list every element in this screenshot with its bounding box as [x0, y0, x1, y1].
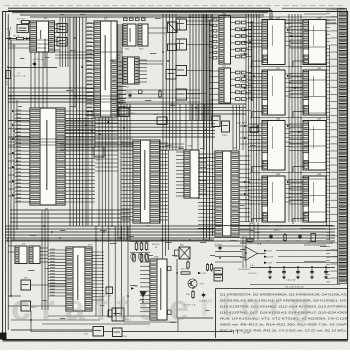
wire right of D2 going down: [94, 117, 96, 147]
svg-text:KD503A: KD503A: [8, 45, 16, 48]
gate D5.4 box: [157, 117, 167, 125]
gate D4.2: [21, 301, 31, 311]
D3 right stubs: [40, 247, 48, 249]
long vertical wire x206: [203, 14, 205, 240]
box DN2000: [214, 268, 223, 274]
svg-text:c r a f t s e: c r a f t s e: [11, 287, 189, 328]
capacitor C4: [202, 294, 205, 296]
oscillator box G1: [17, 25, 29, 33]
resistor R5 vertical: [159, 91, 161, 97]
svg-text:R32 C*: R32 C*: [274, 230, 281, 232]
wire x252 LED column: [251, 22, 253, 100]
flip-flop D16.2: [222, 121, 230, 132]
capacitor C8: [298, 235, 301, 237]
svg-text:R37 1k: R37 1k: [181, 269, 187, 271]
svg-text:47k: 47k: [6, 84, 9, 86]
svg-text:C17–C19: C17–C19: [248, 273, 257, 275]
D10 right resistor pairs (R14-R21): [231, 22, 236, 24]
flip-flop D16.1: [212, 116, 220, 127]
D10 left resistor stubs: [213, 19, 217, 21]
RAM mid bus: [288, 14, 290, 222]
gate D6.2 box: [94, 147, 104, 157]
vertical bus x190-211: [189, 14, 191, 120]
top right link: [264, 16, 337, 18]
svg-text:D4.3: D4.3: [123, 336, 127, 338]
power section separator wire: [215, 225, 333, 227]
svg-text:U3 K153UD2: U3 K153UD2: [238, 269, 251, 271]
D11 right resistor pairs: [231, 72, 236, 74]
horizontal link wires upper-left: [30, 16, 264, 18]
svg-text:C9: C9: [308, 242, 310, 244]
svg-text:1k: 1k: [155, 247, 157, 249]
svg-text:D8.1: D8.1: [125, 49, 129, 51]
vertical bus bundle left of CPU: [69, 17, 71, 226]
svg-text:PV VEТ: PV VEТ: [243, 333, 251, 335]
svg-text:4,7 mk × 6 B: 4,7 mk × 6 B: [14, 75, 26, 78]
wires into CPU bottom: [8, 91, 94, 93]
wires D8-D9 to bus: [139, 60, 163, 62]
+5V arrow mid-bottom: [131, 287, 134, 289]
top supply bus wires: [8, 7, 270, 9]
resistor row above D8: [124, 18, 128, 21]
svg-text:C7: C7: [267, 241, 269, 243]
gate D6.1 box: [119, 108, 129, 117]
D11 left stubs: [209, 70, 219, 72]
extra pin stubs D9 right: [139, 59, 147, 61]
RAM right-side stubs col1: [285, 23, 291, 25]
resistor R36: [187, 262, 189, 268]
D17 left stubs: [48, 249, 66, 251]
BR analog wires: [215, 245, 242, 247]
data bus horizontal bundle: [118, 103, 246, 105]
D2 left pin stubs with labels: [15, 110, 30, 112]
wire y66 row: [8, 67, 57, 69]
BL bottom wires: [11, 319, 100, 321]
D17 right stubs: [92, 251, 104, 253]
resistor R43: [284, 235, 286, 241]
svg-text:+5 B: +5 B: [202, 273, 207, 275]
D15 left stubs: [140, 261, 150, 263]
wires below RAM rows: [250, 66, 330, 68]
IC D9 below D8: [123, 57, 139, 84]
wire staircase top-left to D2: [8, 95, 120, 97]
capacitor C7: [269, 235, 272, 237]
+5V arrow analog: [198, 272, 201, 274]
horizontal wires from D2 to middle chips: [10, 209, 130, 211]
capacitor C9: [311, 234, 316, 242]
RAM row link verticals: [249, 222, 251, 240]
vertical wires left of D17: [41, 210, 43, 310]
svg-text:C8: C8: [296, 241, 298, 243]
long verticals x162-168 mid: [162, 150, 164, 259]
wire clock row: [6, 38, 17, 40]
wire horiz y88-95 right: [186, 24, 212, 26]
gate D4.1: [21, 280, 31, 290]
edge connector X1 (right margin pin strip): [339, 9, 347, 12]
D14 left stubs: [121, 142, 133, 144]
vertical drops x180-204: [179, 104, 181, 150]
wires D7 to D2 region: [74, 17, 76, 108]
box 2B2 small: [106, 287, 113, 294]
speaker BA1: [179, 247, 190, 259]
connector symbol bottom: [232, 330, 235, 333]
BL vertical bundle x96-128: [95, 226, 97, 316]
IC D8.1: [123, 24, 136, 46]
svg-text:D16.2: D16.2: [222, 135, 228, 137]
svg-text:C6 22mk: C6 22mk: [214, 244, 222, 246]
D21 right stubs: [239, 155, 250, 157]
vertical wires x60-68: [59, 17, 61, 67]
extra stubs around D13: [199, 153, 207, 155]
IC D3 block B: [29, 246, 40, 264]
filter capacitor C13: [311, 268, 313, 271]
feedback resistor R42: [247, 239, 253, 242]
wires D1 to D2 vertical drops: [30, 52, 32, 108]
wires v x212-215 upper: [212, 14, 214, 116]
vertical wires x118-122 top: [117, 24, 119, 104]
gate box D5.3 far right of D8: [168, 22, 178, 33]
parts list box: [216, 288, 349, 290]
D13 left stubs: [176, 151, 184, 153]
flip-flop D5.2: [176, 39, 187, 50]
vertical wires x99-112 below CPU: [98, 117, 100, 226]
wires y55-58 long: [55, 51, 123, 53]
svg-text:−5 B: −5 B: [249, 265, 254, 267]
gate block D4 right of D1: [57, 24, 67, 33]
box DM5.1: [112, 308, 124, 321]
svg-text:C26 30: C26 30: [125, 92, 132, 94]
resistor array row 2: [133, 255, 136, 262]
D7 left pin stubs with labels: [86, 23, 94, 25]
wires between RAM columns: [289, 29, 303, 31]
flip-flop D5.3b: [176, 66, 187, 76]
junction dots: [74, 37, 76, 39]
vertical bus x88-95: [87, 110, 89, 226]
transistor VT2: [188, 279, 197, 288]
wires top-left staircase: [8, 39, 57, 41]
resistor R2: [30, 37, 38, 39]
filter capacitor C10: [269, 268, 271, 271]
IC D3 block A: [15, 246, 27, 264]
filter capacitor C11: [283, 268, 285, 271]
component M1 small: [139, 90, 143, 94]
filter capacitor C12: [297, 268, 299, 271]
diode VD1 arrows: [9, 37, 12, 40]
bottom long wire: [104, 331, 113, 333]
flip-flop D12.1: [176, 89, 187, 100]
D14 right stubs: [160, 142, 169, 144]
D7 right pin stubs: [117, 61, 126, 63]
bottom gate D7.2: [93, 327, 104, 337]
resistor trio above transistor: [131, 253, 134, 260]
svg-text:+12 B: +12 B: [267, 257, 273, 259]
analog left wire: [176, 259, 178, 318]
mid-page control bus bundle: [5, 225, 214, 227]
bus tap arrows: [244, 29, 247, 31]
gate box D5.6: [166, 70, 176, 80]
lower-left wires: [8, 295, 21, 297]
registration mark (black square, bottom-left): [0, 333, 7, 340]
svg-text:R6–R13: R6–R13: [152, 244, 160, 246]
svg-text:C10–C12b: C10–C12b: [286, 280, 296, 282]
transistor VT1 (filled): [140, 292, 147, 298]
filter capacitor C14: [325, 268, 327, 271]
small box left of DM5.1: [108, 310, 112, 317]
resistor R38: [192, 292, 194, 298]
D15 right small boxes: [168, 267, 172, 271]
connector left rail: [337, 9, 339, 285]
scattered tiny labels: [60, 14, 64, 15]
svg-text:D7.2: D7.2: [84, 334, 88, 336]
svg-text:D16.1: D16.1: [204, 114, 210, 116]
vertical bus x118-130: [117, 104, 119, 240]
power rail wires: [276, 250, 338, 252]
connector long stubs: [304, 13, 326, 15]
D2 right pin stubs going to bus: [65, 110, 95, 112]
svg-text:r t o r g: r t o r g: [200, 287, 310, 323]
bus bundle y138-145 left: [8, 138, 133, 140]
svg-text:+5 B: +5 B: [7, 29, 12, 31]
address bus horizontal bundle: [65, 120, 215, 122]
svg-text:−5 B: −5 B: [267, 263, 272, 265]
wire y80: [8, 87, 95, 89]
left vertical bus wires: [7, 14, 9, 330]
RAM column bus (left): [245, 14, 247, 222]
svg-text:R22–R28: R22–R28: [237, 123, 247, 125]
resistor R3 left edge: [6, 71, 11, 79]
BL horizontals y246-258: [8, 245, 15, 247]
bottom gate D4.3: [113, 328, 123, 337]
wires hooking RAM rows to bus: [240, 29, 248, 31]
D1 right pin stubs: [55, 23, 61, 25]
capacitor bank supply wire: [250, 267, 335, 269]
svg-text:R43: R43: [282, 240, 285, 242]
vertical bus x163-176: [162, 14, 164, 150]
resistor array R6-R13 row 1: [135, 243, 138, 250]
gate block D4 second: [57, 38, 67, 47]
IC D8.2: [138, 24, 148, 46]
vertical wires x233-242 mid right: [232, 105, 234, 150]
bus y90-102 center: [118, 89, 200, 91]
ground bus below caps: [250, 284, 340, 286]
svg-text:R37 1k; R38 510; R40, R41: R37 1k; R38 510; R40, R41 2k; C4 0,033 m…: [220, 328, 347, 332]
page caption (tiny print along top edge): [4, 4, 10, 7]
D21 left stubs: [198, 153, 215, 155]
bus bundle y147-150: [60, 143, 184, 145]
gate box D5.5: [168, 44, 177, 51]
left mid horizontals: [8, 146, 15, 148]
svg-text:+5 B: +5 B: [257, 244, 262, 246]
resistor pair R40 R41: [206, 265, 208, 271]
connector Kn box: [250, 127, 258, 133]
resistor R1: [17, 37, 24, 39]
TR horizontals to D10: [176, 17, 246, 19]
svg-text:+5 B: +5 B: [267, 251, 272, 253]
array connect wires: [130, 241, 150, 243]
